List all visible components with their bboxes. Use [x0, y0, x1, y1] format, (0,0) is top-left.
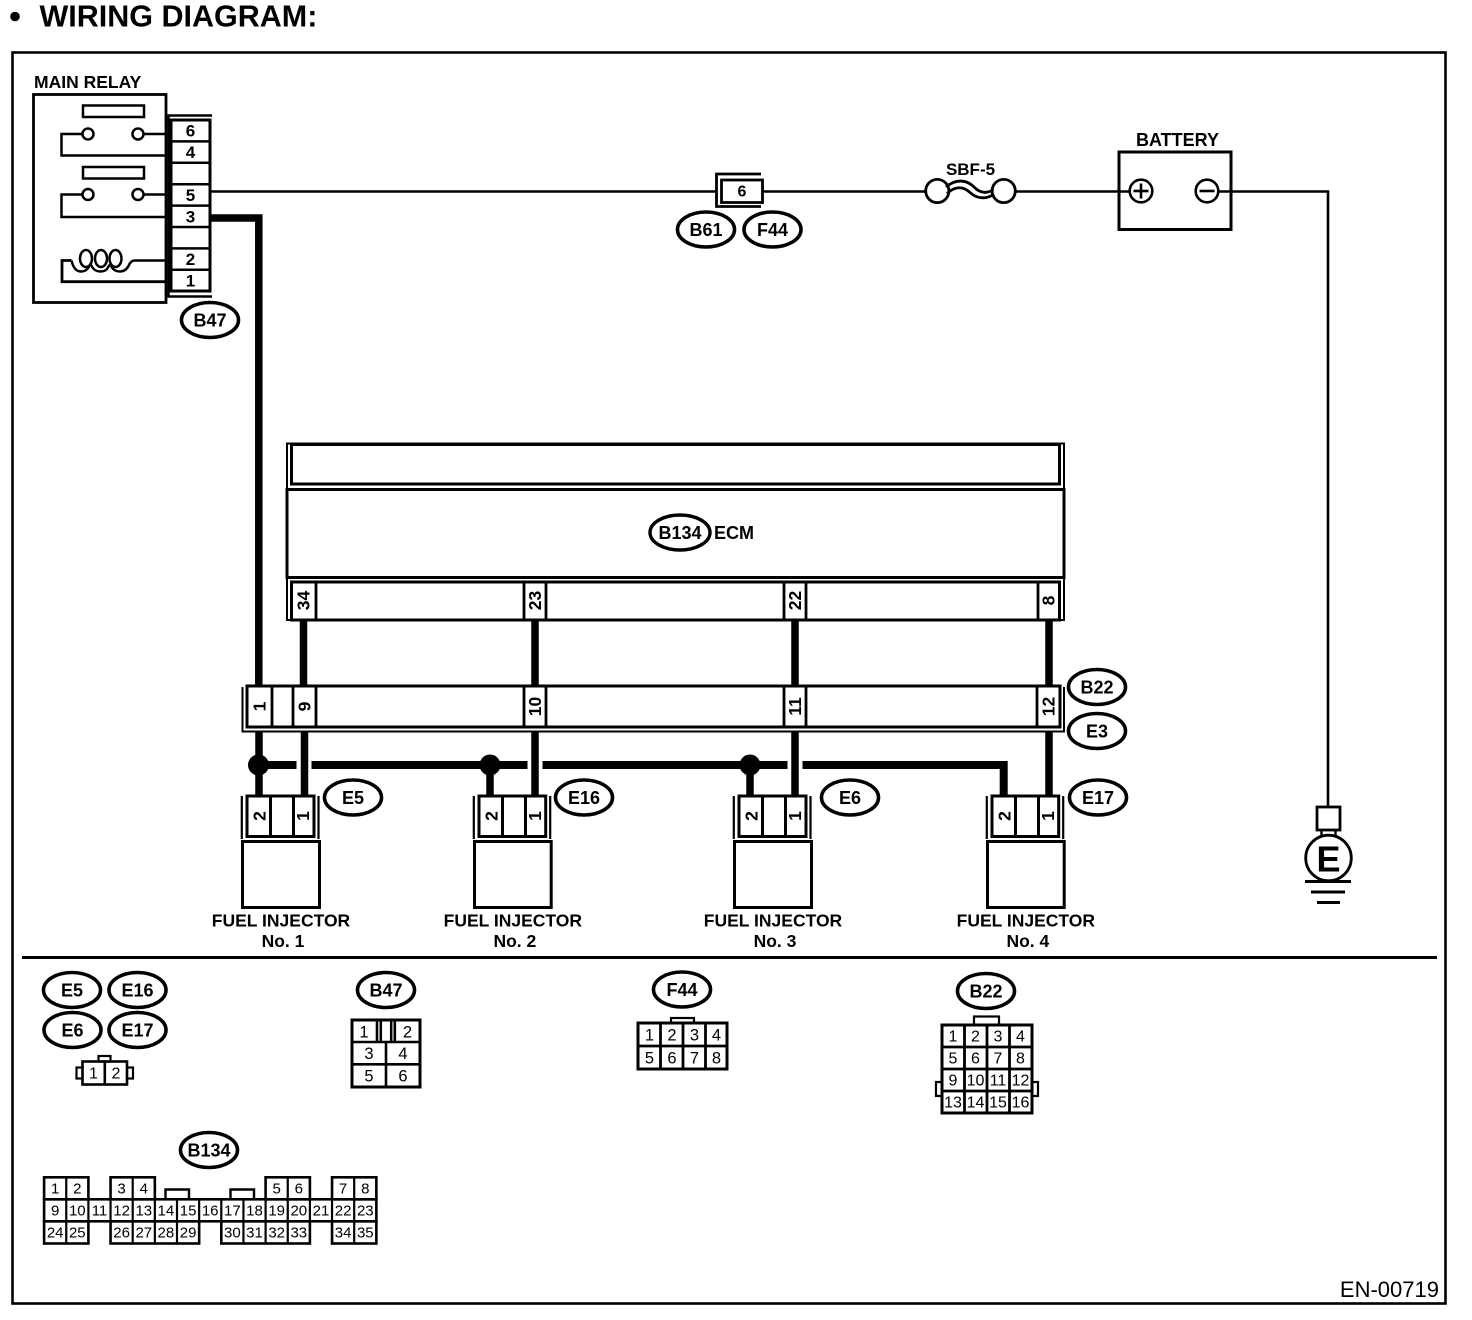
svg-text:5: 5 [186, 186, 195, 205]
svg-text:32: 32 [268, 1225, 285, 1242]
svg-text:1: 1 [645, 1026, 654, 1044]
svg-text:11: 11 [785, 697, 805, 716]
svg-text:1: 1 [785, 811, 805, 821]
svg-text:12: 12 [113, 1203, 130, 1220]
svg-text:E6: E6 [839, 788, 861, 808]
svg-text:10: 10 [525, 697, 545, 717]
svg-text:1: 1 [250, 701, 270, 711]
svg-text:2: 2 [482, 811, 502, 821]
svg-text:34: 34 [294, 591, 314, 611]
svg-text:25: 25 [69, 1225, 86, 1242]
svg-text:16: 16 [202, 1203, 219, 1220]
svg-text:1: 1 [186, 271, 195, 290]
svg-text:4: 4 [140, 1181, 148, 1198]
svg-text:E5: E5 [342, 788, 364, 808]
svg-text:9: 9 [949, 1073, 958, 1090]
svg-text:10: 10 [967, 1073, 985, 1090]
svg-text:1: 1 [525, 811, 545, 821]
svg-text:2: 2 [186, 250, 195, 269]
svg-text:22: 22 [785, 591, 805, 611]
svg-text:6: 6 [971, 1051, 980, 1068]
svg-text:3: 3 [364, 1045, 373, 1063]
svg-text:4: 4 [1016, 1029, 1025, 1046]
svg-text:9: 9 [295, 701, 315, 711]
svg-text:10: 10 [69, 1203, 86, 1220]
svg-text:WIRING DIAGRAM:: WIRING DIAGRAM: [40, 0, 318, 34]
svg-text:27: 27 [135, 1225, 152, 1242]
svg-text:4: 4 [398, 1045, 407, 1063]
svg-text:21: 21 [313, 1203, 330, 1220]
svg-text:13: 13 [944, 1095, 962, 1112]
svg-text:1: 1 [89, 1066, 98, 1083]
svg-text:5: 5 [273, 1181, 281, 1198]
svg-text:6: 6 [738, 184, 747, 201]
svg-text:BATTERY: BATTERY [1136, 130, 1219, 150]
svg-text:2: 2 [112, 1066, 121, 1083]
svg-text:E: E [1316, 838, 1340, 879]
svg-text:FUEL INJECTOR: FUEL INJECTOR [704, 911, 843, 931]
svg-text:5: 5 [645, 1049, 654, 1067]
svg-text:FUEL INJECTOR: FUEL INJECTOR [957, 911, 1096, 931]
svg-text:33: 33 [290, 1225, 307, 1242]
svg-text:2: 2 [73, 1181, 81, 1198]
svg-text:12: 12 [1012, 1073, 1030, 1090]
svg-text:15: 15 [180, 1203, 197, 1220]
svg-text:E6: E6 [61, 1020, 83, 1040]
svg-text:2: 2 [995, 811, 1015, 821]
svg-text:1: 1 [293, 811, 313, 821]
svg-text:9: 9 [51, 1203, 59, 1220]
svg-text:8: 8 [361, 1181, 369, 1198]
svg-text:B47: B47 [369, 980, 402, 1000]
svg-text:20: 20 [290, 1203, 307, 1220]
svg-text:No. 4: No. 4 [1006, 931, 1049, 951]
svg-text:35: 35 [357, 1225, 374, 1242]
svg-text:24: 24 [47, 1225, 64, 1242]
svg-text:11: 11 [990, 1073, 1007, 1090]
svg-text:6: 6 [186, 122, 195, 141]
svg-text:E16: E16 [121, 980, 153, 1000]
svg-text:7: 7 [339, 1181, 347, 1198]
svg-text:7: 7 [690, 1049, 699, 1067]
svg-text:18: 18 [246, 1203, 263, 1220]
svg-text:No. 2: No. 2 [493, 931, 536, 951]
svg-text:3: 3 [690, 1026, 699, 1044]
svg-text:F44: F44 [757, 220, 788, 240]
svg-text:3: 3 [994, 1029, 1003, 1046]
svg-text:6: 6 [667, 1049, 676, 1067]
svg-text:5: 5 [949, 1051, 958, 1068]
svg-text:1: 1 [1038, 811, 1058, 821]
svg-text:1: 1 [949, 1029, 958, 1046]
svg-text:ECM: ECM [714, 523, 754, 543]
svg-text:19: 19 [268, 1203, 285, 1220]
svg-text:2: 2 [250, 811, 270, 821]
svg-text:14: 14 [967, 1095, 985, 1112]
svg-text:8: 8 [1016, 1051, 1025, 1068]
svg-text:31: 31 [246, 1225, 263, 1242]
svg-text:FUEL INJECTOR: FUEL INJECTOR [444, 911, 583, 931]
svg-text:FUEL INJECTOR: FUEL INJECTOR [212, 911, 351, 931]
svg-text:3: 3 [117, 1181, 125, 1198]
svg-text:No. 1: No. 1 [262, 931, 305, 951]
svg-text:4: 4 [186, 143, 196, 162]
svg-text:F44: F44 [666, 980, 697, 1000]
svg-text:1: 1 [51, 1181, 59, 1198]
svg-text:2: 2 [742, 811, 762, 821]
svg-text:14: 14 [158, 1203, 175, 1220]
svg-text:E5: E5 [61, 980, 83, 1000]
svg-text:5: 5 [364, 1067, 373, 1085]
svg-text:B22: B22 [969, 981, 1002, 1001]
svg-text:4: 4 [712, 1026, 721, 1044]
svg-text:6: 6 [398, 1067, 407, 1085]
svg-text:28: 28 [158, 1225, 175, 1242]
svg-text:E17: E17 [121, 1020, 153, 1040]
svg-text:34: 34 [335, 1225, 352, 1242]
svg-text:12: 12 [1039, 697, 1059, 717]
svg-text:EN-00719: EN-00719 [1340, 1277, 1439, 1302]
svg-text:6: 6 [295, 1181, 303, 1198]
svg-text:16: 16 [1012, 1095, 1030, 1112]
svg-text:E3: E3 [1086, 721, 1108, 741]
svg-text:2: 2 [971, 1029, 980, 1046]
svg-text:15: 15 [989, 1095, 1007, 1112]
svg-text:3: 3 [186, 207, 195, 226]
svg-text:29: 29 [180, 1225, 197, 1242]
svg-text:E16: E16 [568, 788, 600, 808]
svg-text:23: 23 [525, 591, 545, 611]
svg-text:8: 8 [712, 1049, 721, 1067]
svg-text:B22: B22 [1080, 677, 1113, 697]
svg-text:SBF-5: SBF-5 [946, 160, 995, 179]
svg-text:13: 13 [135, 1203, 152, 1220]
svg-text:No. 3: No. 3 [754, 931, 797, 951]
svg-text:26: 26 [113, 1225, 130, 1242]
svg-text:23: 23 [357, 1203, 374, 1220]
svg-text:11: 11 [92, 1203, 108, 1220]
svg-text:B134: B134 [658, 523, 701, 543]
svg-text:MAIN RELAY: MAIN RELAY [34, 72, 142, 92]
svg-text:8: 8 [1039, 595, 1059, 605]
svg-text:2: 2 [667, 1026, 676, 1044]
svg-text:17: 17 [224, 1203, 241, 1220]
svg-text:E17: E17 [1082, 788, 1114, 808]
svg-text:2: 2 [403, 1023, 412, 1041]
svg-text:B134: B134 [187, 1140, 230, 1160]
svg-text:7: 7 [994, 1051, 1003, 1068]
svg-text:B47: B47 [193, 310, 226, 330]
svg-text:30: 30 [224, 1225, 241, 1242]
svg-text:22: 22 [335, 1203, 352, 1220]
svg-text:B61: B61 [689, 220, 722, 240]
svg-text:1: 1 [359, 1023, 368, 1041]
